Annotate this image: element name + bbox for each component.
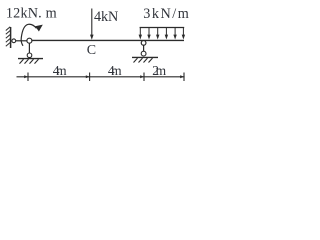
distributed load top line <box>140 27 185 29</box>
dimension arrowhead 1 <box>24 75 28 78</box>
ground hatching right <box>134 58 153 62</box>
right support vertical link <box>143 45 145 51</box>
ground under right support <box>132 56 158 58</box>
ground hatching left <box>20 59 39 63</box>
ground under left support <box>18 58 43 60</box>
background <box>0 0 205 91</box>
svg-text:4m: 4m <box>108 63 122 78</box>
svg-text:3kN/m: 3kN/m <box>143 6 189 22</box>
svg-text:12kN. m: 12kN. m <box>6 5 57 21</box>
dimension tick 2 <box>89 73 91 82</box>
link pin at wall <box>12 39 16 43</box>
load arrowheads <box>139 35 186 40</box>
moment arrowhead <box>35 25 43 32</box>
dimension arrowhead 2 <box>86 75 90 78</box>
load arrow shafts (6) <box>140 28 183 36</box>
dimension tick 3 <box>143 73 145 82</box>
svg-text:4kN: 4kN <box>94 9 118 25</box>
roller circle under pin <box>27 53 32 58</box>
svg-text:4m: 4m <box>53 63 67 78</box>
right support lower pin <box>141 51 146 56</box>
horizontal link bar <box>16 40 27 42</box>
vertical link under pin <box>28 43 30 53</box>
dimension arrowhead 4 <box>180 75 184 78</box>
moment arc M <box>21 24 36 46</box>
dimension tick 1 <box>27 73 29 82</box>
beam <box>32 39 184 41</box>
pin A (main pin) <box>27 38 32 43</box>
svg-text:2m: 2m <box>152 63 166 78</box>
wall (left fixed surface) <box>10 27 12 48</box>
dimension arrowhead 3 <box>140 75 144 78</box>
wall hatching <box>6 27 10 46</box>
dimension tick 4 <box>183 73 185 82</box>
right support upper pin <box>141 41 146 46</box>
force arrow 4kN head <box>90 35 94 40</box>
force arrow 4kN shaft <box>91 9 93 37</box>
svg-text:C: C <box>87 43 96 58</box>
dimension line <box>17 76 185 78</box>
